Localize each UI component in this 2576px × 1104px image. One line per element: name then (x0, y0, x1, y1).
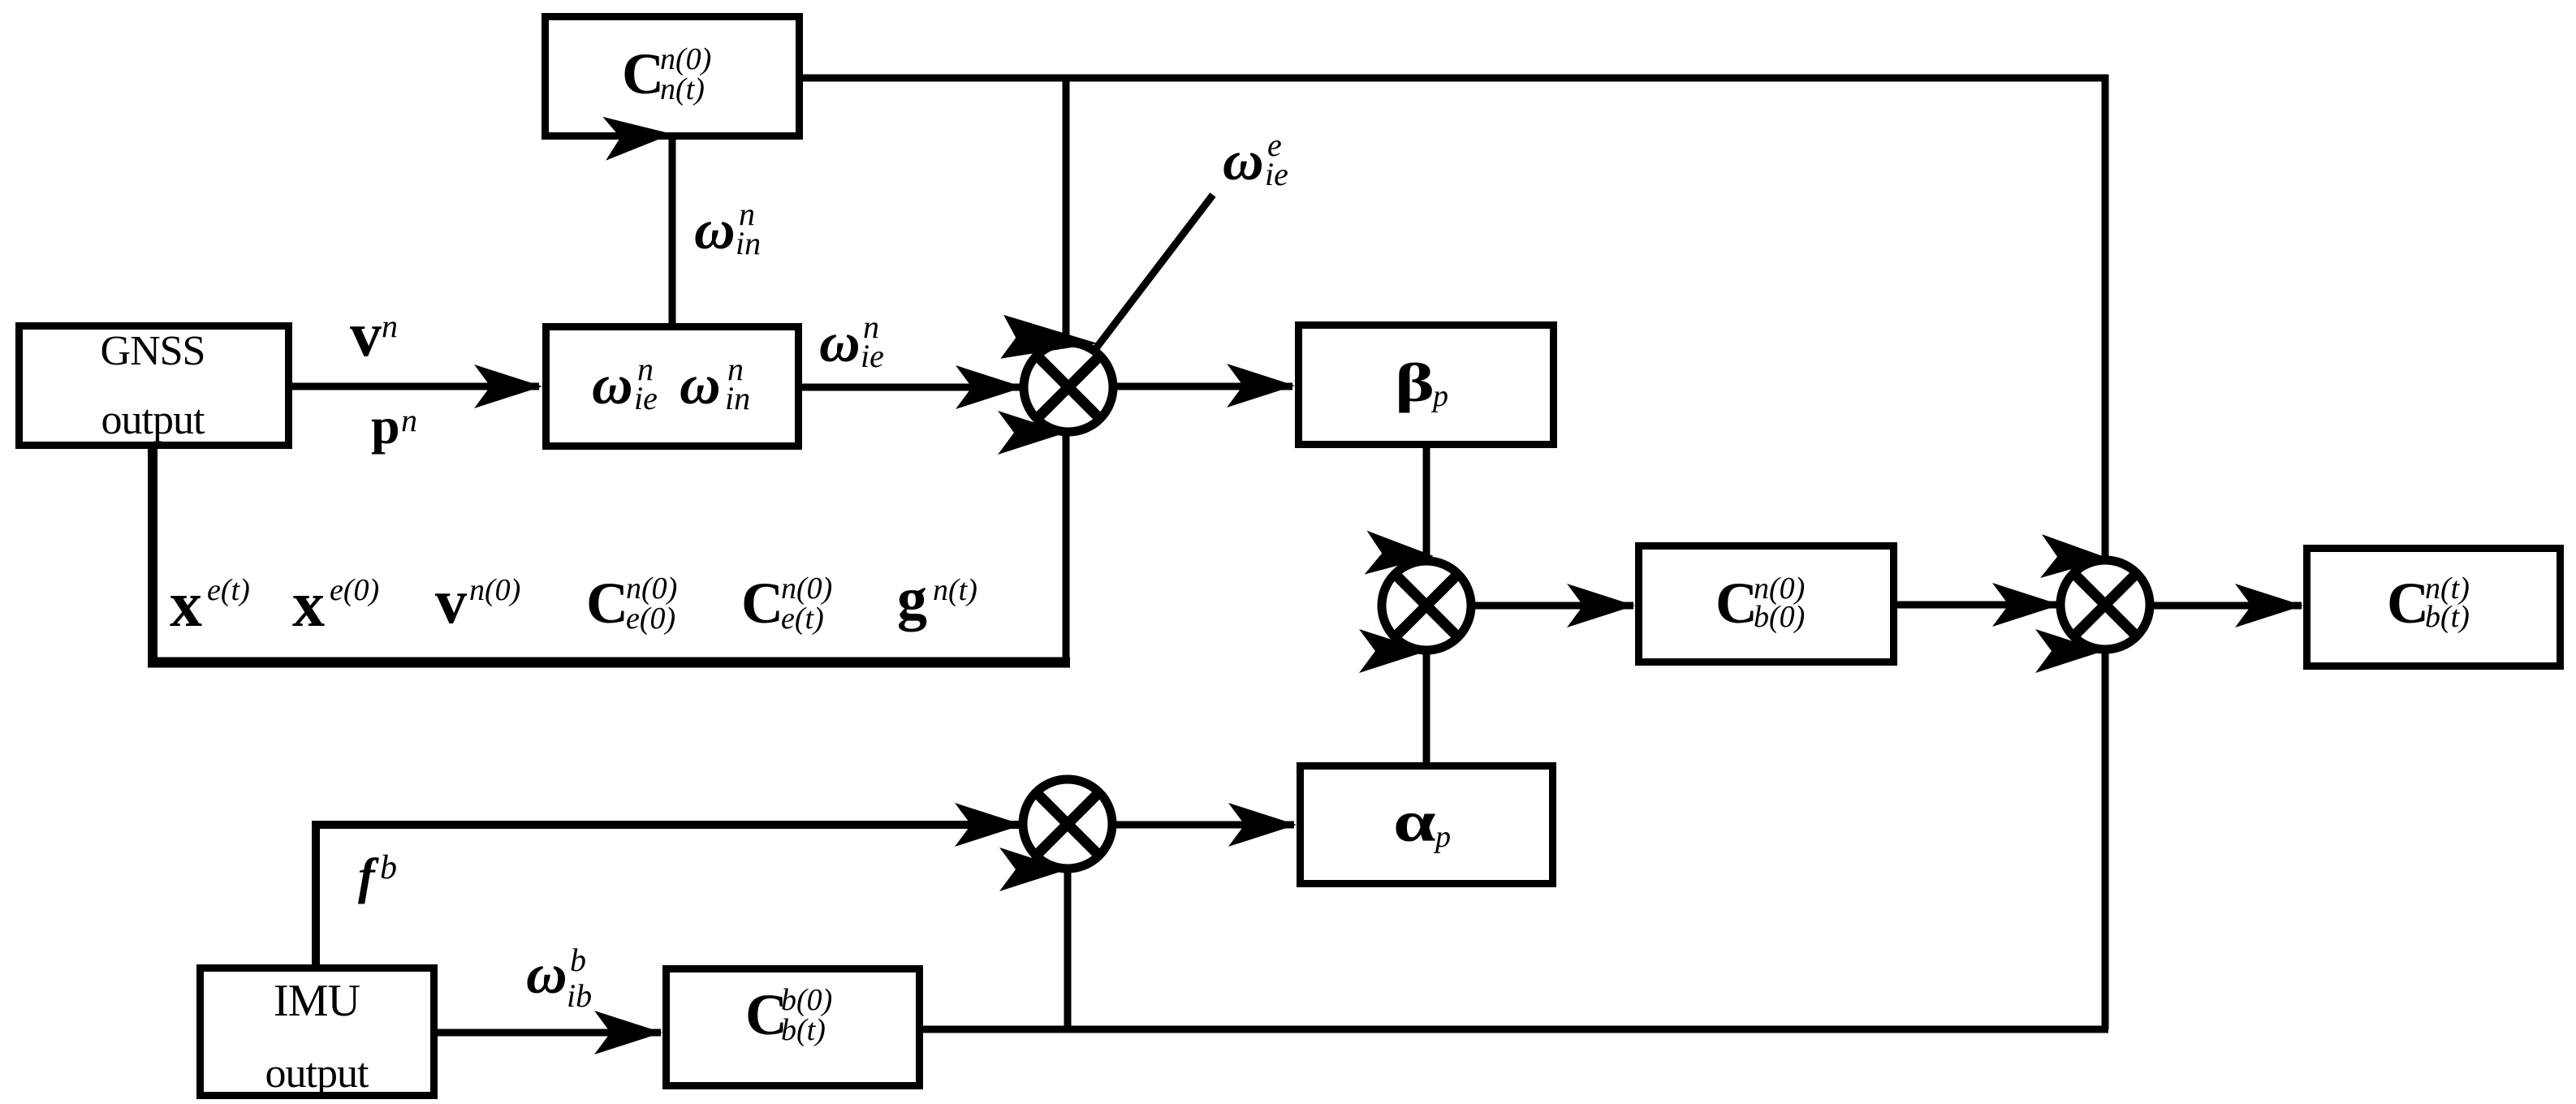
svg-text:v: v (435, 566, 467, 636)
wire: Cb(t) output bus to right corner (923, 1026, 2108, 1033)
label p^n (371, 397, 417, 455)
node N1 multiplier (1024, 343, 1113, 432)
svg-text:ie: ie (861, 338, 884, 374)
svg-text:ω: ω (680, 354, 721, 416)
box C^b(0)_b(t) (667, 969, 920, 1086)
arrowhead into N3 left (1992, 583, 2060, 627)
svg-text:b(t): b(t) (781, 1013, 826, 1047)
arrowhead into final box (2235, 584, 2303, 627)
arrowhead into Cb(t) box (594, 1011, 662, 1054)
wire: beta box down to N2 (1423, 448, 1430, 562)
box C^n(0)_b(0) (1639, 546, 1894, 662)
arrowhead into alpha box (1228, 803, 1297, 847)
box GNSS output (19, 326, 289, 446)
label C^n(0)_e(0) on bottom bus (586, 571, 677, 636)
svg-text:ib: ib (567, 977, 592, 1014)
box omega_ie^n omega_in^n (546, 327, 799, 446)
svg-text:n(t): n(t) (660, 72, 705, 106)
svg-text:e(t): e(t) (207, 573, 250, 607)
node N3 multiplier (2060, 560, 2150, 649)
wire: omega box to N1 (802, 384, 1022, 391)
svg-text:v: v (350, 299, 382, 369)
wire: vertical through node N1 at x=1313 (1063, 78, 1070, 667)
wire: diagonal omega_ie^e pointer line into N1 (1094, 195, 1213, 351)
label C^n(0)_e(t) on bottom bus (741, 571, 832, 636)
node N4 multiplier (1023, 779, 1112, 869)
box IMU output (201, 968, 434, 1098)
label omega_ie^e near diagonal (1223, 127, 1288, 192)
svg-text:C: C (586, 571, 628, 636)
svg-text:b(0): b(0) (781, 983, 832, 1017)
svg-text:p: p (371, 397, 400, 455)
svg-text:ω: ω (526, 943, 567, 1006)
box C^n(0)_n(t) (B1) (546, 17, 800, 136)
svg-text:b(0): b(0) (1754, 600, 1805, 634)
label g^n(t) on bottom bus (897, 566, 977, 632)
svg-text:x: x (170, 569, 202, 640)
label x^e(t) on bottom bus (170, 569, 250, 640)
svg-text:C: C (741, 571, 783, 636)
arrowhead N1 top tilted (1000, 315, 1098, 365)
wire: N3 bottom down to bottom-right bus corner (2102, 649, 2109, 1029)
label omega_ib^b (526, 942, 592, 1014)
arrowhead N1 bottom tilted (998, 411, 1066, 455)
label omega_ie^n after omega box (819, 308, 884, 374)
node N2 multiplier (1382, 561, 1471, 650)
arrowhead into beta box (1227, 364, 1295, 408)
svg-text:GNSS: GNSS (101, 328, 205, 374)
svg-text:e(t): e(t) (781, 602, 824, 636)
svg-text:p: p (1430, 379, 1448, 413)
svg-text:output: output (265, 1050, 369, 1097)
arrowhead into Cb0 box (1567, 584, 1635, 627)
svg-text:ω: ω (1223, 130, 1264, 192)
svg-text:β: β (1395, 351, 1435, 413)
wire: N3 to final box (2150, 602, 2302, 610)
wire: IMU to Cb(t) box (438, 1029, 661, 1037)
svg-text:e(0): e(0) (626, 602, 675, 636)
svg-text:ie: ie (634, 380, 658, 416)
wire: f^b from IMU top, up and right to N4 (312, 822, 1020, 964)
label x^e(0) on bottom bus (292, 569, 379, 640)
svg-text:x: x (292, 569, 325, 640)
wire: N2 to Cb0 box (1471, 602, 1633, 610)
wire: GNSS output to omega box carrying v,p (292, 383, 539, 390)
svg-text:n(0): n(0) (781, 571, 832, 606)
svg-text:b: b (380, 849, 397, 886)
wire: alpha box up to N2 (1423, 649, 1430, 762)
svg-text:g: g (897, 566, 927, 632)
wire: Cb0 box to N3 (1897, 602, 2059, 609)
label omega_in^n on vertical wire (694, 196, 761, 261)
svg-text:b(t): b(t) (2425, 600, 2470, 634)
wire: N4 to alpha box (1115, 822, 1294, 829)
arrowhead N3 top tilted (2040, 534, 2110, 580)
arrowhead into N4 left (955, 803, 1023, 847)
wire: N1 to beta box (1113, 383, 1292, 390)
svg-text:n: n (382, 308, 398, 344)
label v^n (350, 299, 398, 369)
svg-text:C: C (622, 41, 664, 106)
arrowhead N2 top tilted (1365, 531, 1435, 578)
svg-text:n(0): n(0) (626, 571, 677, 606)
svg-text:n: n (401, 402, 417, 438)
svg-text:ie: ie (1265, 156, 1288, 192)
svg-text:n(t): n(t) (933, 573, 977, 607)
wire: junction on bus up to N4 (1064, 869, 1072, 1029)
arrowhead into omega box (474, 364, 542, 408)
box alpha_p (1301, 766, 1553, 884)
svg-text:α: α (1393, 790, 1436, 855)
svg-text:in: in (725, 380, 750, 416)
arrowhead N2 bottom tilted (1359, 629, 1427, 673)
wire: GNSS drop and bottom label bus (148, 449, 1070, 662)
svg-text:ω: ω (819, 312, 861, 374)
svg-text:n(0): n(0) (469, 573, 520, 607)
svg-text:in: in (736, 225, 761, 261)
label v^n(0) on bottom bus (435, 566, 520, 636)
svg-text:n(0): n(0) (660, 42, 711, 76)
arrowhead into B1 bottom edge (602, 112, 674, 161)
svg-text:ω: ω (694, 199, 736, 261)
svg-text:e(0): e(0) (330, 573, 379, 607)
svg-text:b: b (570, 942, 586, 978)
wire: omega box up into Cn(0)n(t) (669, 138, 676, 323)
wire: top bus from Cn(0)n(t) box right edge to corner above N3 (803, 75, 2108, 561)
svg-text:C: C (2387, 571, 2429, 636)
svg-text:C: C (1715, 571, 1758, 636)
box beta_p (1299, 326, 1554, 445)
arrowhead into N1 left (956, 365, 1024, 409)
arrowhead N4 bottom tilted (999, 847, 1068, 891)
label f^b (358, 849, 397, 904)
box C^n(t)_b(t) (final output) (2307, 549, 2561, 666)
svg-text:p: p (1433, 820, 1451, 854)
svg-text:output: output (101, 397, 205, 443)
svg-text:IMU: IMU (274, 976, 360, 1026)
svg-text:ω: ω (592, 354, 633, 416)
arrowhead N3 bottom tilted (2035, 629, 2104, 673)
